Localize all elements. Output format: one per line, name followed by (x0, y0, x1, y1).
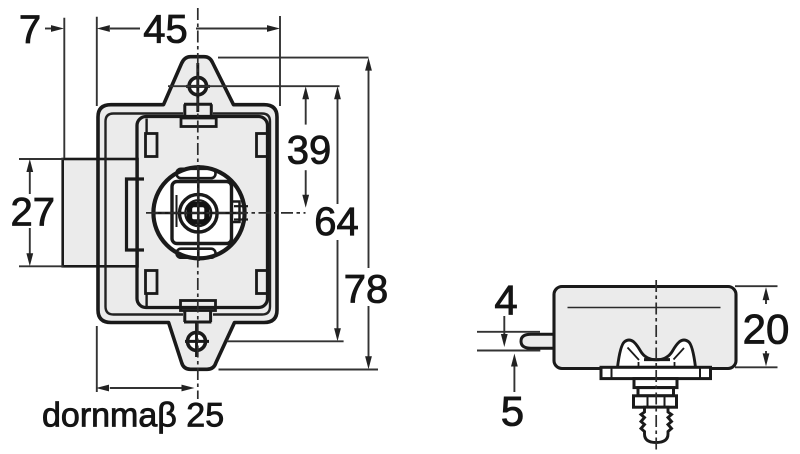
svg-text:5: 5 (501, 388, 524, 435)
svg-text:39: 39 (287, 129, 332, 173)
svg-text:dornmaβ 25: dornmaβ 25 (42, 397, 224, 435)
svg-text:78: 78 (344, 268, 389, 312)
svg-text:4: 4 (494, 277, 517, 324)
svg-text:27: 27 (11, 190, 56, 234)
svg-text:20: 20 (743, 306, 790, 353)
svg-text:45: 45 (143, 8, 188, 52)
svg-text:7: 7 (19, 8, 41, 52)
svg-text:64: 64 (314, 200, 359, 244)
